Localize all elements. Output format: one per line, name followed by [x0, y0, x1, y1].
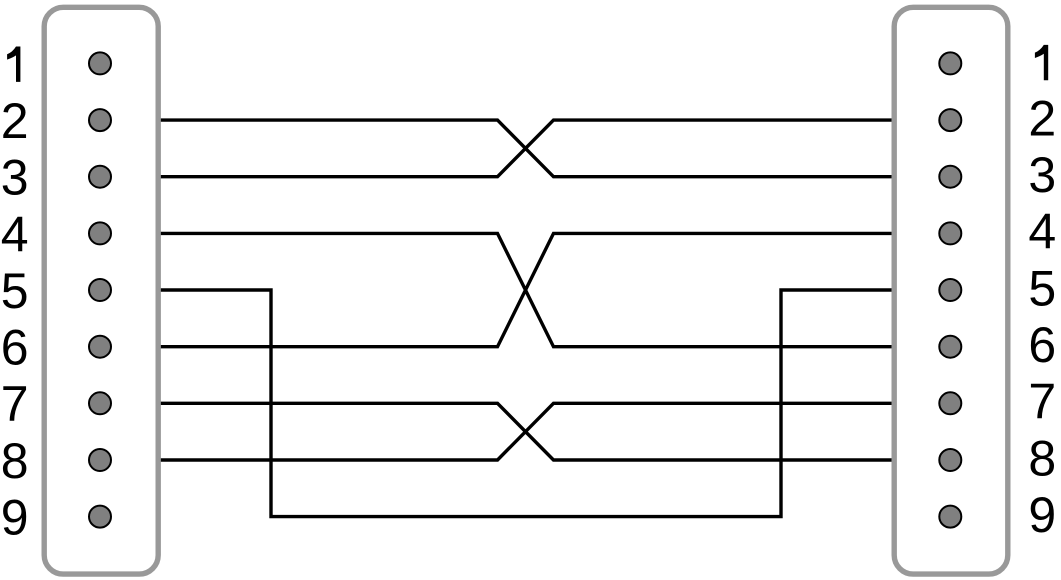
svg-text:2: 2 [1, 93, 29, 149]
svg-text:4: 4 [1028, 204, 1056, 260]
svg-text:9: 9 [1, 490, 29, 546]
left pin 4 [89, 222, 111, 244]
right pin 4 [939, 222, 961, 244]
wire L8 to R7 [157, 403, 894, 460]
svg-text:7: 7 [1, 376, 29, 432]
svg-text:3: 3 [1, 150, 29, 206]
svg-text:2: 2 [1028, 90, 1056, 146]
left pin 8 [89, 449, 111, 471]
right pin 6 [939, 336, 961, 358]
wire L5 to R5 routed around bottom [157, 290, 894, 517]
svg-text:5: 5 [1028, 260, 1056, 316]
left pin 2 [89, 109, 111, 131]
right pin 7 [939, 392, 961, 414]
left pin 6 [89, 336, 111, 358]
left pin 3 [89, 166, 111, 188]
svg-text:3: 3 [1028, 147, 1056, 203]
right pin 3 [939, 166, 961, 188]
svg-text:8: 8 [1, 433, 29, 489]
wire L2 to R3 [157, 120, 894, 177]
right connector body [894, 7, 1008, 574]
svg-text:5: 5 [1, 263, 29, 319]
left pin 5 [89, 279, 111, 301]
right pin 5 [939, 279, 961, 301]
wire L4 to R6 [157, 233, 894, 346]
left pin 9 [89, 506, 111, 528]
svg-text:6: 6 [1, 320, 29, 376]
right pin 9 [939, 506, 961, 528]
svg-text:4: 4 [1, 206, 29, 262]
svg-text:9: 9 [1028, 487, 1056, 543]
svg-text:8: 8 [1028, 430, 1056, 486]
right label 1 [1035, 45, 1048, 80]
svg-text:7: 7 [1028, 374, 1056, 430]
right pin 1 [939, 52, 961, 74]
wire L3 to R2 [157, 120, 894, 177]
left label 1 [7, 47, 20, 82]
right pin 8 [939, 449, 961, 471]
left pin 7 [89, 392, 111, 414]
left connector body [44, 7, 158, 574]
wire L6 to R4 [157, 233, 894, 346]
right pin 2 [939, 109, 961, 131]
wire L7 to R8 [157, 403, 894, 460]
left pin 1 [89, 52, 111, 74]
svg-text:6: 6 [1028, 317, 1056, 373]
